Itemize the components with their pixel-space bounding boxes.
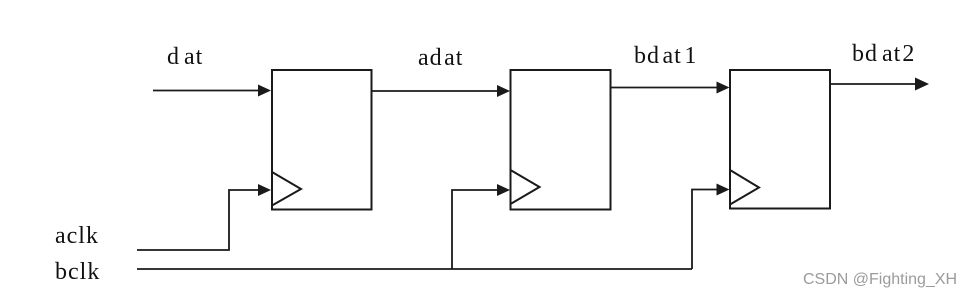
clock triangle FF2 xyxy=(511,170,540,204)
arrowhead aclk into FF1 clock xyxy=(258,184,271,196)
wire bdat2 output of FF3 xyxy=(830,83,916,85)
svg-text:adat: adat xyxy=(418,45,463,71)
wire bclk net horizontal xyxy=(137,268,692,270)
arrowhead bdat1 into FF3 D xyxy=(717,82,730,94)
wire bdat1 FF2.Q to FF3.D xyxy=(611,87,720,89)
wire aclk net xyxy=(137,190,260,250)
flip-flop FF3 (second bclk register) xyxy=(730,70,830,209)
svg-text:bdat1: bdat1 xyxy=(634,43,697,69)
arrowhead adat into FF2 D xyxy=(497,85,510,97)
arrowhead bclk into FF3 clock xyxy=(717,184,730,196)
wire bclk riser to FF2 clock xyxy=(452,190,500,269)
flip-flop FF2 (first bclk register) xyxy=(511,70,611,210)
svg-text:CSDN @Fighting_XH: CSDN @Fighting_XH xyxy=(803,271,957,288)
clock triangle FF3 xyxy=(730,170,759,205)
flip-flop FF1 (aclk domain register) xyxy=(272,70,372,210)
clock triangle FF1 xyxy=(272,172,301,206)
arrowhead dat into FF1 D xyxy=(258,85,271,97)
wire adat FF1.Q to FF2.D xyxy=(372,90,501,92)
wire dat input xyxy=(153,90,260,92)
arrowhead bdat2 output xyxy=(915,78,929,91)
wire bclk riser to FF3 clock xyxy=(692,190,719,270)
svg-text:dat: dat xyxy=(167,44,203,70)
svg-text:bdat2: bdat2 xyxy=(852,41,915,67)
svg-text:bclk: bclk xyxy=(55,259,100,285)
arrowhead bclk into FF2 clock xyxy=(497,184,510,196)
svg-text:aclk: aclk xyxy=(55,223,99,249)
